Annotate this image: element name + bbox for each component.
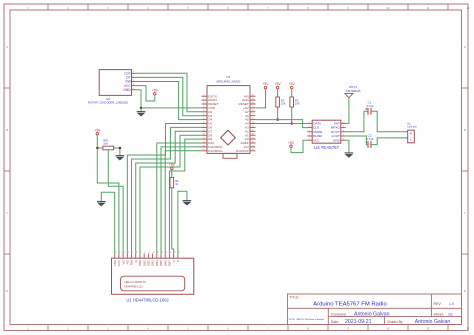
svg-text:10K: 10K [103,142,108,146]
svg-text:30: 30 [252,95,254,97]
svg-text:+5V: +5V [275,82,282,86]
wire U2 VCC to +5V PWR1 [135,86,155,101]
svg-text:3: 3 [203,102,204,104]
svg-text:3: 3 [124,252,125,254]
svg-text:ANTENNA: ANTENNA [346,89,362,93]
resistor RP1 body [103,146,114,150]
svg-text:2: 2 [309,126,310,128]
svg-text:7: 7 [203,118,204,120]
wire U4 D9 to LCD DB7 [169,139,201,254]
tea5767 U3 left pin names [313,122,322,143]
ground GND5 tea5767 [345,152,354,158]
svg-text:C: C [6,211,8,215]
svg-text:12: 12 [203,138,205,140]
wire R3 bottom to SDA net [291,107,293,123]
svg-text:4: 4 [309,135,310,137]
power flag +5V PWR7 tea vcc [288,141,295,149]
svg-text:+5V: +5V [262,82,269,86]
svg-text:U3 TEA5767: U3 TEA5767 [314,145,340,150]
wire U2 CLK to U4 D2 [135,73,202,112]
svg-text:24: 24 [252,118,254,120]
connector H1 pins [405,132,408,138]
wire U4 +5V pin to PWR2 [256,90,266,108]
svg-text:U1 HD44780LCD-1602: U1 HD44780LCD-1602 [126,298,169,303]
junction R2 SCL node [276,118,279,121]
wire PWR3 to R2 top [277,90,279,97]
junction RP1 right node [119,147,122,150]
wire +5V net to LCD VCC pin [97,148,119,254]
svg-text:6: 6 [343,139,344,141]
svg-text:14: 14 [170,252,172,254]
wire U3 ANT to antenna [346,98,349,124]
svg-text:GND: GND [123,88,131,92]
svg-text:HELLO WORLD!: HELLO WORLD! [125,280,146,284]
wire U2 GND down to gnd bus [135,90,141,108]
border ruler ticks top [48,4,448,10]
junction RP1 left node [96,147,99,150]
wire LCD VSS to ground [101,192,114,253]
arduino nano U4 left pins [202,96,208,151]
svg-text:6: 6 [136,252,137,254]
wire U4 D8 to LCD DB0 [140,135,202,253]
junction encoder gnd node [140,107,143,110]
border zone numbers top [27,6,470,10]
svg-text:10K: 10K [295,102,300,106]
wire U2 SW to U4 D4 [135,82,202,120]
svg-text:+5V: +5V [152,88,159,92]
svg-text:NOTE: TEA5767 FM Radio w/ Ardu: NOTE: TEA5767 FM Radio w/ Arduino [289,318,325,321]
tea5767 U3 left pin numbers [309,122,310,141]
antenna ANT1 symbol [345,93,353,97]
wire U4 D11 to LCD DB5 [161,147,201,254]
wire U4 D10 to LCD DB4 [157,143,202,254]
border ruler ticks bottom [48,325,448,331]
border zone numbers bottom [27,327,470,331]
svg-text:9: 9 [203,126,204,128]
svg-text:TITLE:: TITLE: [290,296,300,300]
svg-text:6: 6 [203,114,204,116]
power flag +5V PWR3 [275,82,282,90]
svg-text:8: 8 [145,252,146,254]
wire U4 A4 to U3 DATA [256,122,308,124]
svg-text:10K: 10K [281,102,286,106]
svg-text:11: 11 [203,134,205,136]
power flag +5V PWR2 arduino [262,82,269,90]
svg-text:+5V: +5V [94,128,101,132]
svg-text:D12/MISO: D12/MISO [208,149,223,153]
rotary encoder U2 pin numbers [133,72,135,90]
svg-text:K: K [176,260,180,262]
svg-text:HD44780 LCD: HD44780 LCD [125,285,143,289]
svg-text:4.7uF: 4.7uF [366,137,374,141]
svg-text:C: C [464,211,466,215]
border ruler ticks left [4,88,10,254]
svg-text:23: 23 [252,122,254,124]
svg-text:7: 7 [343,135,344,137]
lcd U1 body [112,258,194,294]
arduino nano U4 left pin names [208,94,223,153]
svg-text:29: 29 [252,99,254,101]
ground GND1 encoder [137,108,146,117]
border zone letters right [464,45,466,293]
svg-text:21: 21 [252,130,254,132]
lcd U1 display window [121,276,185,291]
svg-text:Antonio Galvan: Antonio Galvan [354,312,390,318]
svg-text:Drawn By:: Drawn By: [388,320,404,324]
connector H1 body [408,130,415,143]
svg-text:20: 20 [252,134,254,136]
lcd U1 pin names [113,259,180,266]
wire U2 DT to U4 D3 [135,77,202,115]
svg-text:4: 4 [203,106,204,108]
arduino nano U4 left pin numbers [203,95,205,152]
arduino nano U4 right pin names [236,94,250,153]
arduino nano U4 diamond logo [221,130,236,145]
arduino nano U4 body [207,86,250,154]
svg-text:15: 15 [203,149,205,151]
power flag +5V PWR4 [289,82,296,90]
svg-text:7: 7 [141,252,142,254]
wire U4 D6 to LCD RW [132,127,202,253]
wire U3 LOUT through C2 to line out L [346,136,405,145]
svg-text:15: 15 [174,252,176,254]
svg-text:ARDUINO_NANO: ARDUINO_NANO [216,79,241,83]
svg-text:13: 13 [203,141,205,143]
ground GND4 LCD backlight [183,196,192,205]
power flag +5V PWR6 backlight [169,163,176,171]
wire U3 GND to ground [346,140,349,152]
wire U4 A5 to U3 CLK [256,120,308,128]
svg-text:Sheet:: Sheet: [434,312,444,316]
border zone letters left [6,45,8,293]
ground GND2 contrast pot [116,153,125,160]
svg-text:9: 9 [149,252,150,254]
svg-text:D13/SCK: D13/SCK [236,149,249,153]
svg-text:17: 17 [252,145,254,147]
svg-text:8: 8 [343,130,344,132]
wire R2 bottom to SCL net [277,107,279,120]
svg-text:12: 12 [161,252,163,254]
svg-text:26: 26 [252,110,254,112]
wire PWR7 to U3 VCC [291,140,307,152]
svg-text:A: A [464,45,466,49]
svg-text:1: 1 [115,252,116,254]
svg-text:13: 13 [165,252,167,254]
tea5767 U3 left pins [307,123,312,140]
arduino nano U4 right pins [250,96,256,151]
svg-text:+5V: +5V [289,82,296,86]
svg-text:1.0: 1.0 [449,302,454,306]
svg-text:9: 9 [343,126,344,128]
svg-text:B: B [6,128,8,132]
svg-text:2: 2 [120,252,121,254]
svg-text:3: 3 [309,130,310,132]
wire PWR4 to R3 top [291,90,293,97]
capacitor C2 symbol [365,141,371,148]
capacitor C1 symbol [365,108,371,115]
svg-text:U2: U2 [106,97,110,101]
svg-text:B: B [464,128,466,132]
svg-text:2021-09-21: 2021-09-21 [345,319,372,325]
wire +5V PWR5 to RP1 left [96,135,98,148]
resistor R3 body [290,97,294,107]
svg-text:11: 11 [157,252,159,254]
wire +5V PWR6 to R1 top [171,170,173,177]
border ruler ticks right [462,88,469,254]
svg-text:1/1: 1/1 [448,312,453,316]
wire U3 ROUT through C1 to line out R [346,111,405,132]
arduino nano U4 usb connector [223,153,237,158]
tea5767 U3 right pins [341,123,346,140]
resistor R2 body [276,97,280,107]
power flag +5V PWR5 contrast [94,128,101,136]
junction R3 SDA node [290,122,293,125]
svg-text:4: 4 [128,252,129,254]
svg-text:ROTARY_ENCODER_LABELED: ROTARY_ENCODER_LABELED [88,100,128,104]
ground GND3 LCD VSS [97,198,106,207]
svg-text:28: 28 [252,102,254,104]
power flag +5V PWR1 encoder VCC [152,88,159,96]
svg-text:18: 18 [252,141,254,143]
svg-text:Line out: Line out [408,126,417,129]
svg-text:D: D [6,289,8,293]
svg-text:Antonio Galvan: Antonio Galvan [415,319,451,325]
svg-text:2: 2 [203,99,204,101]
svg-text:Arduino TEA5767 FM Radio: Arduino TEA5767 FM Radio [313,302,387,308]
wire LCD K to ground [178,191,187,253]
svg-text:22: 22 [252,126,254,128]
svg-text:5: 5 [309,139,310,141]
svg-text:19: 19 [252,138,254,140]
svg-text:14: 14 [203,145,205,147]
wire RP1 left lead [97,147,103,149]
svg-text:5: 5 [132,252,133,254]
rotary encoder U2 pins [132,73,136,89]
svg-text:1: 1 [309,122,310,124]
svg-text:4.7uF: 4.7uF [366,104,374,108]
svg-text:16: 16 [178,252,180,254]
svg-text:25: 25 [252,114,254,116]
svg-text:27: 27 [252,106,254,108]
svg-text:10: 10 [342,122,344,124]
resistor R1 body [170,177,174,187]
svg-text:VCC: VCC [313,138,320,142]
wire U4 D7 to LCD E [136,131,202,253]
lcd U1 pins [115,254,178,259]
svg-text:D: D [464,289,466,293]
title block outline [288,294,462,325]
svg-text:+5V: +5V [288,141,295,145]
rotary encoder U2 body [99,70,131,96]
wire gnd bus to U4 GND [141,107,202,109]
svg-text:A: A [6,45,8,49]
svg-text:1: 1 [203,95,204,97]
arduino nano U4 right pin numbers [252,95,254,152]
tea5767 U3 right pin numbers [342,122,344,141]
wire R1 bottom to LCD A pin [172,188,174,254]
svg-text:Company:: Company: [331,312,347,316]
svg-text:5: 5 [203,110,204,112]
lcd U1 pin numbers [115,252,180,254]
svg-text:+5V: +5V [169,163,176,167]
wire RP1 wiper to LCD VO pin [108,150,123,254]
svg-text:10: 10 [203,130,205,132]
svg-text:GND: GND [333,138,341,142]
wire RP1 right lead to gnd [114,148,120,153]
wire U4 D12 to LCD DB6 [165,151,201,254]
wire U4 D5 to LCD RS [127,124,201,254]
svg-text:8: 8 [203,122,204,124]
svg-text:Date:: Date: [331,320,339,324]
tea5767 U3 body [312,120,341,143]
svg-text:10: 10 [153,252,155,254]
svg-text:REV:: REV: [434,302,442,306]
tea5767 U3 right pin names [331,122,341,143]
svg-text:16: 16 [252,149,254,151]
